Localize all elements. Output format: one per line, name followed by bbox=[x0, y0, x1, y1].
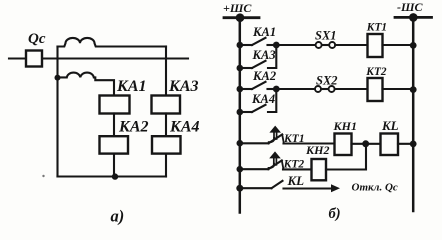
wire: KA1 to KA2 bbox=[113, 114, 115, 137]
arrowhead bbox=[331, 184, 340, 192]
node: row1 on -bus bbox=[410, 42, 417, 49]
wire: vertical CT return conductor bbox=[56, 47, 58, 177]
wire: KT1 to -bus bbox=[383, 44, 414, 46]
contact KA2 bbox=[240, 82, 276, 89]
svg-text:б): б) bbox=[329, 206, 341, 222]
svg-text:SX1: SX1 bbox=[315, 29, 337, 43]
wire: KA3 to KA4 bbox=[165, 114, 167, 137]
wire: row1 to test plug SX1 bbox=[276, 44, 315, 46]
wire: trip output arrow bbox=[284, 187, 332, 189]
svg-text:КА4: КА4 bbox=[169, 119, 200, 136]
node: KH1/KH2 junction bbox=[362, 140, 369, 147]
wire: row2 to test plug SX2 bbox=[276, 88, 315, 90]
node: junction of coil 2 on vertical conductor bbox=[55, 75, 61, 81]
svg-text:КА3: КА3 bbox=[252, 48, 276, 62]
contact KT1 (time delay) bbox=[240, 126, 284, 144]
svg-text:Qc: Qc bbox=[28, 31, 46, 47]
svg-text:КН1: КН1 bbox=[333, 119, 357, 133]
node: KA1/KA3 junction bbox=[273, 42, 280, 49]
relay coil KA1 bbox=[100, 96, 130, 114]
wire: right vertical bus bbox=[412, 17, 415, 211]
svg-text:КА1: КА1 bbox=[252, 25, 276, 39]
svg-text:-ШС: -ШС bbox=[397, 0, 424, 14]
bus +ShS bbox=[224, 16, 259, 19]
node: KA2 row on +bus bbox=[237, 86, 244, 93]
svg-text:KL: KL bbox=[287, 173, 305, 188]
CT coil 1 (top winding) bbox=[58, 38, 167, 47]
contact KL bbox=[240, 181, 283, 188]
svg-text:КН2: КН2 bbox=[305, 143, 329, 157]
wire: to KH1 bbox=[284, 142, 335, 144]
relay coil KA4 bbox=[152, 136, 181, 153]
wire: left vertical bus bbox=[239, 18, 242, 213]
wire: KA4 down to common bbox=[165, 154, 167, 177]
node: +bus tap bbox=[236, 13, 245, 22]
wire: KL coil to -bus bbox=[398, 143, 413, 145]
bus -ShS bbox=[395, 16, 432, 19]
svg-text:а): а) bbox=[111, 207, 125, 226]
contact KA3 bbox=[240, 48, 276, 68]
CT coil 2 (bottom winding) bbox=[58, 73, 115, 96]
svg-text:КА3: КА3 bbox=[168, 78, 199, 95]
wire: SX1 to KT1 bbox=[335, 44, 367, 46]
node: row3 on -bus bbox=[410, 141, 417, 148]
contact KA4 bbox=[240, 92, 276, 112]
svg-text:КТ2: КТ2 bbox=[365, 66, 387, 78]
svg-text:KL: KL bbox=[381, 118, 399, 133]
wire: main primary line through Qc bbox=[9, 57, 188, 59]
wire: SX2 to KT2 bbox=[335, 88, 368, 90]
relay coil KT1 bbox=[368, 34, 383, 57]
svg-text:КА2: КА2 bbox=[118, 119, 149, 136]
breaker Qc (box) bbox=[26, 51, 42, 67]
svg-text:КА1: КА1 bbox=[116, 78, 147, 95]
node: KT2 contact row on +bus bbox=[237, 166, 244, 173]
node: row2 on -bus bbox=[410, 86, 417, 93]
contact KT2 (time delay) bbox=[240, 151, 284, 169]
svg-text:КТ1: КТ1 bbox=[366, 22, 387, 34]
svg-text:Откл. Qc: Откл. Qc bbox=[352, 181, 398, 193]
svg-text:КА4: КА4 bbox=[251, 92, 275, 106]
connector SX2 bbox=[315, 86, 335, 92]
wire: KT2 to -bus bbox=[383, 88, 414, 90]
relay coil KH1 bbox=[335, 134, 352, 156]
wire: KH1 to KL coil bbox=[352, 143, 381, 145]
wire: to KH2 bbox=[283, 168, 312, 170]
svg-text:SX2: SX2 bbox=[316, 73, 338, 87]
relay coil KL bbox=[381, 134, 399, 156]
node: KT1 contact row on +bus bbox=[237, 140, 244, 147]
relay coil KA3 bbox=[152, 96, 181, 114]
node: KA3 row on +bus bbox=[237, 65, 244, 72]
node: KA1 row on +bus bbox=[237, 42, 244, 49]
relay coil KA2 bbox=[100, 136, 129, 153]
contact KA1 bbox=[240, 38, 276, 45]
svg-text:КА2: КА2 bbox=[252, 69, 276, 83]
relay coil KH2 bbox=[312, 159, 327, 180]
connector SX1 bbox=[316, 42, 336, 48]
wire: bottom common conductor bbox=[58, 175, 167, 177]
svg-text:+ШС: +ШС bbox=[223, 1, 252, 15]
node: bottom junction bbox=[112, 173, 118, 179]
node: KA2/KA4 junction bbox=[273, 86, 280, 93]
wire: KH2 up to KH1 junction bbox=[326, 147, 366, 170]
wire: KA2 down to common bbox=[113, 154, 115, 177]
speck bbox=[42, 175, 44, 177]
node: KA4 row on +bus bbox=[237, 109, 244, 116]
node: KL contact row on +bus bbox=[236, 185, 243, 192]
relay coil KT2 bbox=[368, 78, 383, 101]
wire: drop to KA3 bbox=[165, 47, 167, 96]
node: -bus tap bbox=[409, 13, 418, 22]
